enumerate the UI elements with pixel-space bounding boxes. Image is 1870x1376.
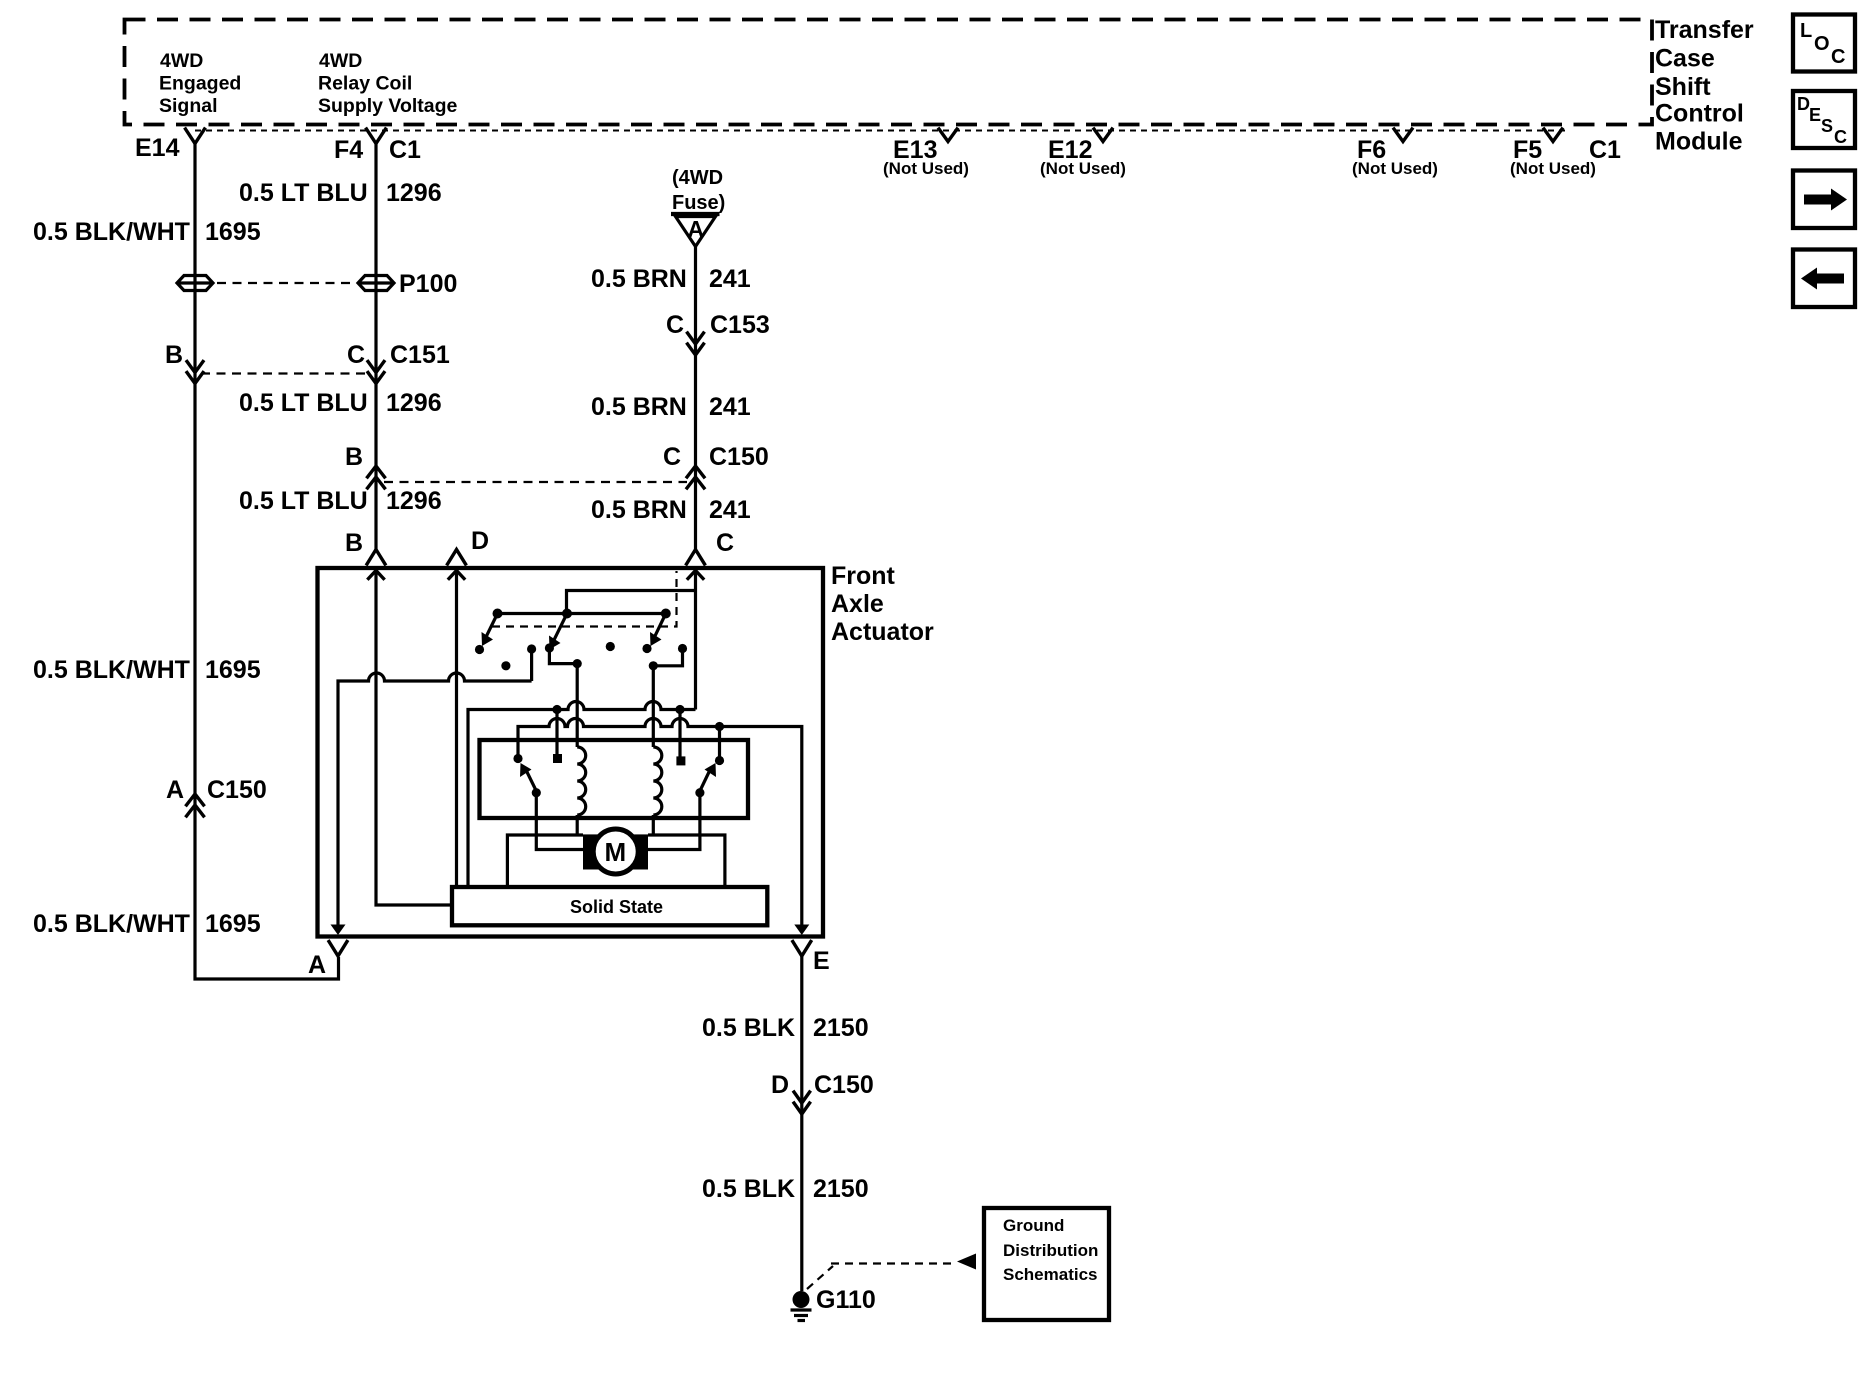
svg-text:0.5 LT BLU: 0.5 LT BLU: [239, 389, 368, 417]
svg-text:D: D: [471, 527, 489, 555]
svg-text:O: O: [1814, 33, 1830, 55]
svg-text:F4: F4: [334, 136, 363, 164]
svg-text:0.5 BLK/WHT: 0.5 BLK/WHT: [33, 656, 190, 684]
svg-text:1296: 1296: [386, 179, 442, 207]
svg-text:C151: C151: [390, 341, 450, 369]
svg-text:B: B: [345, 443, 363, 471]
svg-text:241: 241: [709, 393, 751, 421]
svg-text:0.5 BLK: 0.5 BLK: [702, 1175, 795, 1203]
svg-text:S: S: [1821, 116, 1833, 136]
svg-text:C: C: [663, 443, 681, 471]
svg-text:2150: 2150: [813, 1175, 869, 1203]
svg-text:1695: 1695: [205, 656, 261, 684]
svg-text:Case: Case: [1655, 45, 1715, 73]
svg-text:(4WD: (4WD: [672, 167, 723, 189]
svg-text:0.5 BRN: 0.5 BRN: [591, 393, 687, 421]
svg-text:0.5 BRN: 0.5 BRN: [591, 265, 687, 293]
svg-text:E: E: [813, 947, 830, 975]
svg-text:0.5 BRN: 0.5 BRN: [591, 496, 687, 524]
svg-text:Signal: Signal: [159, 95, 218, 117]
svg-text:Distribution: Distribution: [1003, 1241, 1098, 1260]
svg-text:1695: 1695: [205, 218, 261, 246]
svg-text:0.5 LT BLU: 0.5 LT BLU: [239, 487, 368, 515]
svg-text:B: B: [345, 529, 363, 557]
svg-text:C1: C1: [389, 136, 421, 164]
svg-text:G110: G110: [816, 1286, 876, 1314]
svg-text:0.5 BLK/WHT: 0.5 BLK/WHT: [33, 910, 190, 938]
svg-text:0.5 BLK: 0.5 BLK: [702, 1014, 795, 1042]
svg-text:Engaged: Engaged: [159, 73, 241, 95]
svg-text:Module: Module: [1655, 128, 1743, 156]
svg-text:Transfer: Transfer: [1655, 16, 1754, 44]
svg-text:C: C: [716, 529, 734, 557]
svg-text:A: A: [166, 776, 184, 804]
svg-text:241: 241: [709, 265, 751, 293]
svg-text:B: B: [165, 341, 183, 369]
svg-text:Axle: Axle: [831, 590, 884, 618]
svg-text:Control: Control: [1655, 100, 1744, 128]
svg-text:1296: 1296: [386, 389, 442, 417]
svg-text:(Not Used): (Not Used): [1352, 159, 1438, 178]
svg-text:(Not Used): (Not Used): [883, 159, 969, 178]
svg-text:C150: C150: [814, 1071, 874, 1099]
svg-text:M: M: [605, 837, 627, 867]
svg-text:4WD: 4WD: [319, 50, 362, 72]
svg-text:C: C: [347, 341, 365, 369]
svg-text:Fuse): Fuse): [672, 192, 725, 214]
svg-text:C150: C150: [709, 443, 769, 471]
svg-text:Relay Coil: Relay Coil: [318, 73, 412, 95]
svg-text:E14: E14: [135, 134, 180, 162]
svg-text:C: C: [1831, 46, 1845, 68]
svg-text:A: A: [688, 216, 705, 242]
svg-text:D: D: [771, 1071, 789, 1099]
svg-text:Schematics: Schematics: [1003, 1265, 1098, 1284]
svg-text:C153: C153: [710, 311, 770, 339]
svg-text:241: 241: [709, 496, 751, 524]
svg-text:C150: C150: [207, 776, 267, 804]
svg-text:1296: 1296: [386, 487, 442, 515]
svg-text:P100: P100: [399, 270, 457, 298]
svg-text:C: C: [1834, 127, 1847, 147]
svg-text:Solid State: Solid State: [570, 897, 663, 917]
svg-text:4WD: 4WD: [160, 50, 203, 72]
svg-text:C1: C1: [1589, 136, 1621, 164]
svg-text:L: L: [1800, 20, 1812, 42]
svg-text:Ground: Ground: [1003, 1216, 1064, 1235]
svg-text:C: C: [666, 311, 684, 339]
svg-text:Front: Front: [831, 562, 896, 590]
svg-text:2150: 2150: [813, 1014, 869, 1042]
svg-text:A: A: [308, 951, 326, 979]
svg-text:0.5 BLK/WHT: 0.5 BLK/WHT: [33, 218, 190, 246]
svg-text:Actuator: Actuator: [831, 618, 934, 646]
svg-text:Supply Voltage: Supply Voltage: [318, 95, 458, 117]
svg-text:(Not Used): (Not Used): [1510, 159, 1596, 178]
svg-text:1695: 1695: [205, 910, 261, 938]
svg-text:E: E: [1809, 105, 1821, 125]
svg-text:0.5 LT BLU: 0.5 LT BLU: [239, 179, 368, 207]
svg-text:(Not Used): (Not Used): [1040, 159, 1126, 178]
svg-text:Shift: Shift: [1655, 73, 1711, 101]
